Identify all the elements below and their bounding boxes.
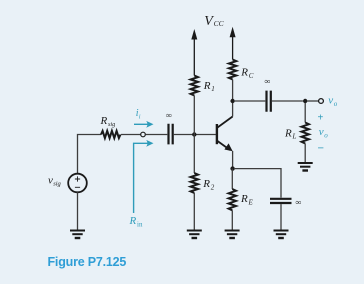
wire: Rsig to input node [121, 134, 141, 136]
svg-text:E: E [248, 199, 254, 207]
svg-text:R: R [100, 115, 108, 127]
svg-text:∞: ∞ [296, 197, 302, 207]
ground (under vsig) [70, 231, 85, 239]
ground (under RE) [225, 231, 240, 239]
Rin arrow (cyan, bent) [134, 140, 154, 213]
wire: CE to ground [280, 204, 282, 230]
wire: output junction down to RL [304, 103, 306, 123]
capacitor CC2 (output, infinity) [267, 91, 271, 112]
wire: junction to RE [231, 169, 233, 189]
resistor Rsig [101, 131, 121, 138]
ground (under R2) [187, 231, 202, 239]
svg-text:+: + [318, 113, 324, 124]
svg-text:sig: sig [108, 121, 115, 128]
node: output terminal open circle [319, 99, 324, 104]
svg-text:R: R [129, 215, 137, 227]
label infinity CC1 [166, 110, 172, 120]
resistor RE [229, 189, 236, 210]
label infinity CE [296, 197, 302, 207]
svg-text:R: R [202, 178, 210, 190]
svg-text:1: 1 [211, 85, 215, 93]
wire: RL to ground [304, 144, 306, 163]
current arrow i_i [134, 121, 154, 128]
ground (under RL) [298, 163, 313, 171]
label minus (across RL) [318, 143, 324, 155]
label VCC [204, 14, 224, 29]
wire: CC1 to base with junction [174, 134, 216, 136]
wire: collector junction to CC2 [235, 100, 265, 102]
node: emitter junction dot [230, 166, 234, 170]
wire: vsig top to corner and right to Rsig [78, 135, 102, 174]
label + (across RL) [318, 113, 324, 124]
node: input open circle [141, 132, 146, 137]
svg-text:L: L [292, 133, 297, 141]
wire: RC to collector junction [232, 80, 234, 117]
wire: RE to ground [231, 210, 233, 230]
svg-text:C: C [249, 72, 254, 80]
svg-text:∞: ∞ [166, 110, 172, 120]
node: base/divider junction dot [192, 132, 196, 136]
svg-text:Figure P7.125: Figure P7.125 [48, 255, 127, 269]
svg-text:i: i [139, 113, 141, 120]
ground (under CE) [274, 231, 289, 239]
transistor Q1 (npn) [217, 117, 233, 152]
svg-text:v: v [319, 126, 324, 138]
label RE [240, 193, 254, 207]
wire: R2 to ground [193, 193, 195, 230]
wire: CC2 to output node [272, 100, 303, 102]
node: collector junction dot [230, 99, 234, 103]
capacitor CC1 (infinity) [169, 124, 173, 145]
resistor R2 [191, 173, 198, 193]
voltage source vsig [68, 174, 87, 193]
svg-text:CC: CC [214, 19, 225, 28]
svg-text:2: 2 [211, 183, 215, 191]
label Rin [129, 215, 143, 229]
label infinity CC2 [265, 76, 271, 86]
svg-text:o: o [334, 100, 338, 108]
svg-text:o: o [324, 132, 328, 140]
label R1 [203, 80, 215, 93]
svg-text:v: v [328, 95, 333, 107]
label i_i (current) [136, 108, 141, 121]
node: output junction dot [303, 99, 307, 103]
label RL [284, 127, 297, 140]
svg-text:R: R [203, 80, 211, 92]
wire: node to capacitor CC1 [145, 134, 167, 136]
svg-text:R: R [240, 193, 248, 205]
resistor RL [302, 123, 309, 144]
resistor R1 [191, 76, 198, 96]
capacitor CE (bypass, infinity) [270, 199, 292, 203]
wire: emitter junction to bypass cap [235, 169, 281, 198]
svg-text:R: R [284, 127, 292, 139]
label R2 [202, 178, 215, 191]
label RC [240, 67, 254, 80]
svg-text:R: R [240, 67, 248, 79]
label vo (across RL) [319, 126, 329, 140]
svg-text:sig: sig [53, 181, 61, 188]
wire: vsig bottom to ground [77, 192, 79, 230]
label vsig [48, 174, 62, 187]
label vo (at terminal) [328, 95, 338, 109]
caption Figure P7.125 [48, 255, 127, 269]
label Rsig [100, 115, 116, 128]
VCC arrow (right, RC branch) [230, 27, 236, 60]
svg-text:−: − [318, 143, 324, 155]
wire: junction to output terminal [307, 100, 318, 102]
svg-text:in: in [137, 221, 143, 229]
wire: R1 to junction to R2 [193, 96, 195, 174]
svg-text:∞: ∞ [265, 76, 271, 86]
VCC arrow (left, R1 branch) [191, 29, 197, 76]
wire: emitter to junction [232, 151, 234, 169]
resistor RC [229, 60, 236, 80]
